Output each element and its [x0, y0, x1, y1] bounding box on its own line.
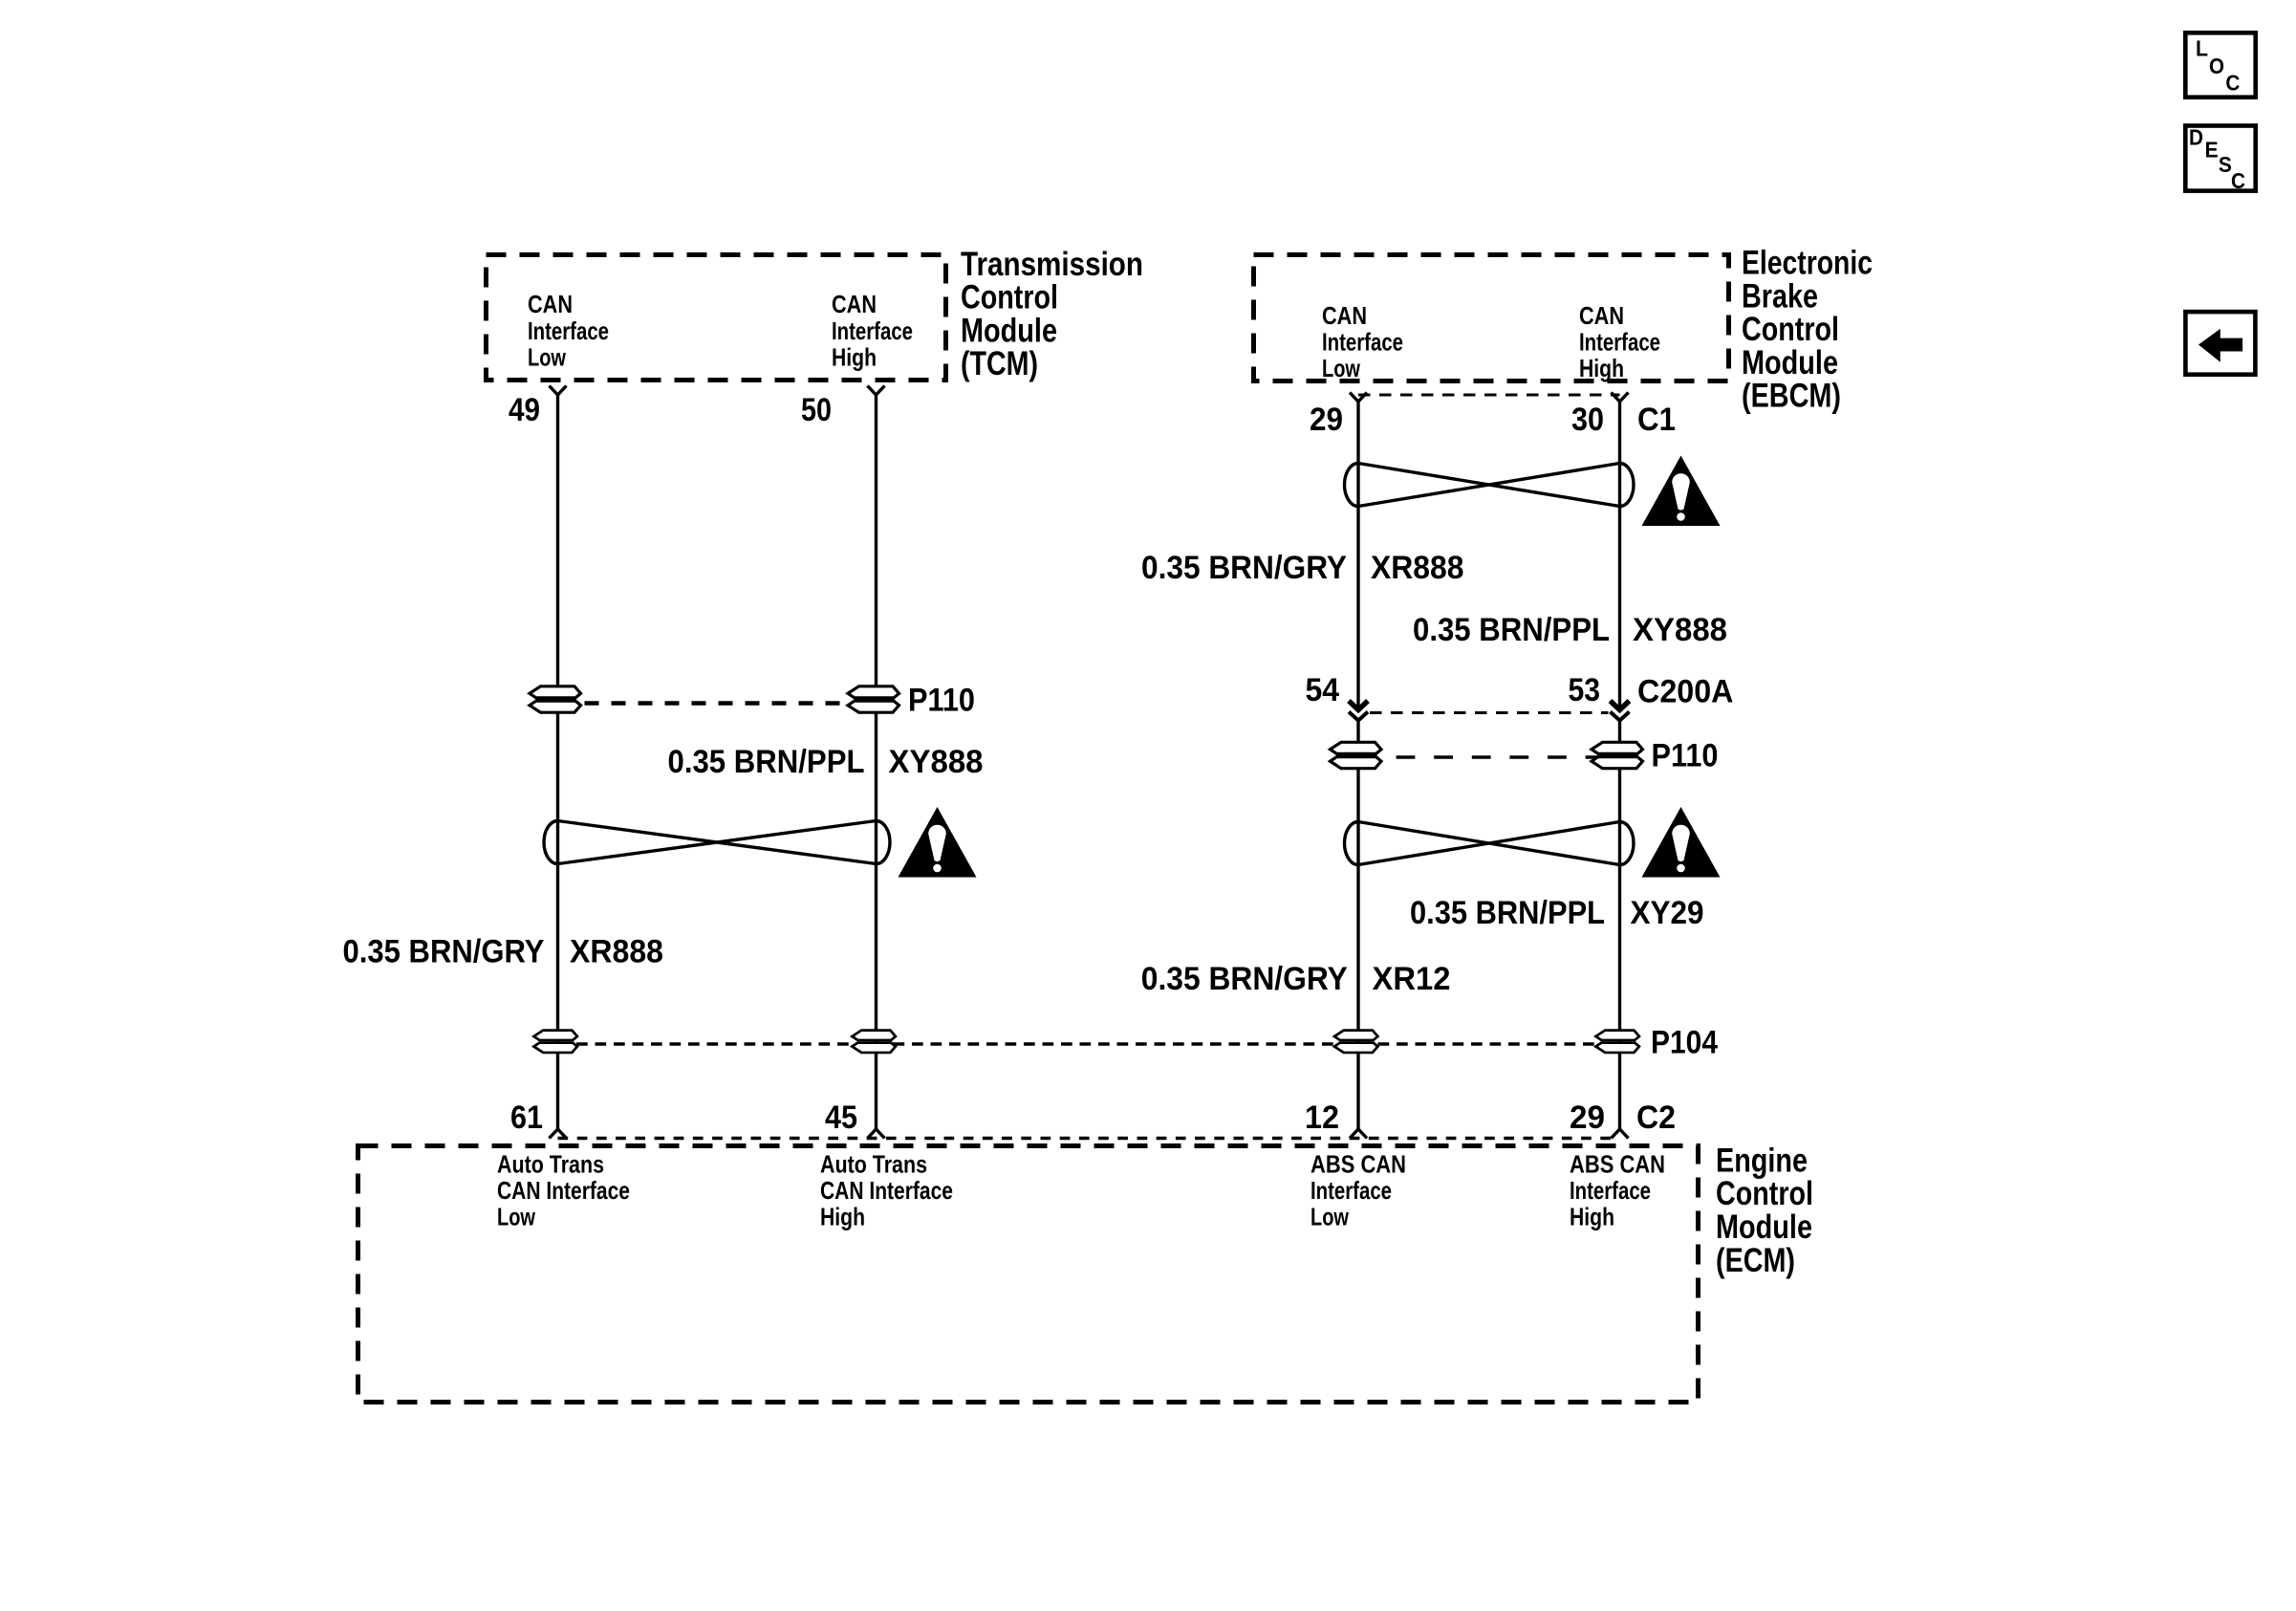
svg-text:CAN Interface: CAN Interface — [820, 1176, 953, 1205]
icon DESC button — [2185, 125, 2255, 193]
svg-text:XR12: XR12 — [1373, 961, 1451, 997]
svg-text:XY888: XY888 — [889, 744, 984, 780]
warning triangle left — [899, 807, 977, 878]
connector P110 symbol on wire 54 — [1331, 742, 1382, 768]
svg-text:53: 53 — [1569, 672, 1601, 708]
svg-text:High: High — [1579, 354, 1624, 382]
svg-text:ABS CAN: ABS CAN — [1310, 1150, 1406, 1179]
wire CAN Interface High TCM pin50 to ECM pin45 (XY888) — [875, 395, 877, 1129]
svg-text:Interface: Interface — [1579, 328, 1660, 357]
twisted pair EBCM CAN wires upper — [1345, 464, 1359, 507]
module TCM dashed box — [487, 255, 946, 381]
svg-text:XR888: XR888 — [1371, 550, 1464, 586]
svg-text:(EBCM): (EBCM) — [1742, 377, 1841, 415]
svg-text:XR888: XR888 — [570, 934, 663, 970]
svg-text:Low: Low — [1310, 1203, 1350, 1231]
pin 30 C1 arrow — [1612, 393, 1629, 403]
svg-text:P110: P110 — [1652, 738, 1719, 774]
svg-text:C1: C1 — [1637, 402, 1676, 438]
node ECM Auto Trans CAN Interface Low — [497, 1150, 630, 1231]
svg-text:High: High — [1570, 1203, 1614, 1231]
connector P110 symbol on wire 53 — [1592, 742, 1643, 768]
label Transmission Control Module (TCM) — [961, 245, 1143, 382]
svg-text:0.35 BRN/PPL: 0.35 BRN/PPL — [1410, 895, 1605, 931]
svg-text:0.35 BRN/GRY: 0.35 BRN/GRY — [1141, 961, 1348, 997]
wire CAN Interface Low TCM pin49 to ECM pin61 (XR888) — [556, 395, 559, 1129]
svg-text:C: C — [2225, 71, 2240, 96]
svg-text:0.35 BRN/GRY: 0.35 BRN/GRY — [1141, 550, 1347, 586]
wire CAN Interface High EBCM pin30 to ECM pin29 (XY888/XY29) — [1618, 402, 1621, 710]
svg-text:Auto Trans: Auto Trans — [820, 1150, 927, 1179]
pin 29 C1 arrow — [1350, 393, 1367, 403]
connector P110 symbol on wire 50 — [848, 686, 899, 712]
twisted pair TCM CAN wires — [544, 821, 558, 864]
svg-text:XY888: XY888 — [1633, 612, 1727, 648]
label Engine Control Module (ECM) — [1716, 1141, 1813, 1278]
svg-text:C200A: C200A — [1637, 674, 1734, 710]
svg-text:50: 50 — [801, 392, 832, 428]
svg-text:45: 45 — [825, 1099, 857, 1136]
svg-text:Low: Low — [1322, 354, 1361, 382]
node TCM CAN Interface High — [832, 290, 913, 371]
connector P104 symbol on wire 12 — [1334, 1031, 1377, 1053]
svg-text:C: C — [2231, 168, 2245, 193]
wire CAN Interface Low EBCM pin29 to ECM pin12 (XR888/XR12) — [1356, 402, 1359, 710]
svg-text:C2: C2 — [1636, 1099, 1676, 1136]
svg-text:29: 29 — [1310, 402, 1343, 438]
connector P104 dashed line — [558, 1042, 1620, 1046]
svg-text:0.35 BRN/PPL: 0.35 BRN/PPL — [668, 744, 865, 780]
svg-text:CAN: CAN — [1322, 301, 1367, 330]
connector P104 symbol on wire 45 — [852, 1031, 895, 1053]
svg-text:High: High — [820, 1203, 865, 1231]
svg-text:Interface: Interface — [528, 316, 609, 345]
svg-text:Auto Trans: Auto Trans — [497, 1150, 604, 1179]
warning triangle right lower — [1642, 807, 1721, 878]
connector P110 left dashed line — [558, 701, 877, 706]
svg-text:CAN: CAN — [832, 290, 877, 318]
pin 61 arrow — [550, 1129, 567, 1139]
connector P110 symbol on wire 49 — [530, 686, 581, 712]
node ECM ABS CAN Interface Low — [1310, 1150, 1406, 1231]
svg-text:12: 12 — [1305, 1099, 1339, 1136]
svg-text:54: 54 — [1306, 672, 1340, 708]
svg-text:P104: P104 — [1651, 1025, 1718, 1061]
module EBCM dashed box — [1254, 255, 1729, 381]
connector C200A pin 54 pass-through arrows — [1349, 701, 1368, 710]
svg-text:CAN: CAN — [528, 290, 573, 318]
svg-text:49: 49 — [509, 392, 540, 428]
connector C2 dashed line — [558, 1137, 1620, 1140]
module ECM dashed box — [358, 1146, 1699, 1403]
node TCM CAN Interface Low — [528, 290, 609, 371]
connector P110 right dashed line — [1358, 755, 1620, 758]
svg-text:0.35 BRN/GRY: 0.35 BRN/GRY — [343, 934, 545, 970]
connector C200A dashed line — [1370, 711, 1609, 714]
connector C1 dashed line — [1358, 394, 1620, 397]
svg-text:L: L — [2196, 36, 2208, 61]
svg-text:Interface: Interface — [1570, 1176, 1651, 1205]
svg-text:S: S — [2219, 152, 2232, 177]
svg-text:Low: Low — [528, 343, 567, 372]
pin 49 arrow — [550, 386, 567, 396]
svg-text:CAN Interface: CAN Interface — [497, 1176, 630, 1205]
svg-text:29: 29 — [1570, 1099, 1605, 1136]
icon LOC button — [2185, 33, 2255, 97]
label Electronic Brake Control Module (EBCM) — [1742, 244, 1873, 415]
pin 50 arrow — [868, 386, 885, 396]
twisted pair EBCM CAN wires lower — [1345, 822, 1359, 865]
node EBCM CAN Interface Low — [1322, 301, 1403, 382]
svg-text:XY29: XY29 — [1631, 895, 1704, 931]
svg-text:E: E — [2205, 138, 2219, 163]
svg-text:(TCM): (TCM) — [961, 344, 1038, 382]
svg-text:Low: Low — [497, 1203, 536, 1231]
icon back arrow button — [2185, 312, 2255, 375]
connector C200A pin 53 pass-through arrows — [1611, 701, 1630, 710]
pin 12 arrow — [1350, 1129, 1367, 1139]
svg-text:30: 30 — [1571, 402, 1604, 438]
svg-text:Interface: Interface — [1322, 328, 1403, 357]
svg-text:Interface: Interface — [832, 316, 913, 345]
svg-text:O: O — [2209, 54, 2224, 78]
svg-text:P110: P110 — [908, 683, 975, 719]
svg-text:ABS CAN: ABS CAN — [1570, 1150, 1665, 1179]
warning triangle right upper — [1642, 456, 1721, 527]
svg-text:High: High — [832, 343, 877, 372]
svg-text:61: 61 — [510, 1099, 543, 1136]
svg-text:CAN: CAN — [1579, 301, 1624, 330]
svg-text:0.35 BRN/PPL: 0.35 BRN/PPL — [1413, 612, 1610, 648]
pin 29 C2 arrow — [1612, 1129, 1629, 1139]
svg-text:(ECM): (ECM) — [1716, 1241, 1795, 1279]
connector P104 symbol on wire 29 — [1595, 1031, 1638, 1053]
svg-text:Interface: Interface — [1310, 1176, 1392, 1205]
connector P104 symbol on wire 61 — [533, 1031, 576, 1053]
pin 45 arrow — [868, 1129, 885, 1139]
node ECM ABS CAN Interface High — [1570, 1150, 1665, 1231]
svg-text:D: D — [2189, 125, 2203, 150]
node EBCM CAN Interface High — [1579, 301, 1660, 382]
node ECM Auto Trans CAN Interface High — [820, 1150, 953, 1231]
